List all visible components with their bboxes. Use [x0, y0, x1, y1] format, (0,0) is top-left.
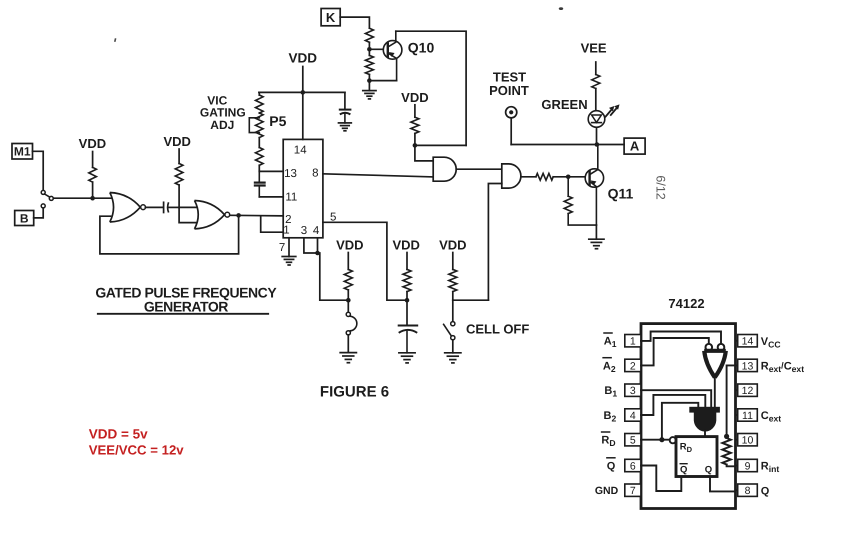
svg-text:VEE/VCC = 12v: VEE/VCC = 12v: [89, 443, 185, 458]
wire CELL OFF riser to U5 input: [488, 184, 501, 301]
switch S2: [346, 312, 350, 316]
pin box 12: [736, 389, 738, 391]
svg-text:9: 9: [745, 461, 751, 473]
wire VDD b1 down: [347, 253, 349, 270]
wire switch common to NOR U1 input: [53, 197, 111, 199]
wire C3 to IC pin 11: [259, 196, 283, 198]
wire B to switch: [34, 208, 44, 218]
box K input terminal: [321, 9, 340, 26]
resistor R8 base: [536, 173, 553, 180]
wire R11 to node: [347, 290, 349, 300]
wire VDD rail horizontal: [259, 91, 345, 93]
pin box 9: [736, 465, 738, 467]
switch S1 arm: [45, 194, 50, 197]
wire M1 to switch: [33, 151, 44, 190]
switch S1 B contact: [41, 204, 45, 208]
box B input terminal: [15, 211, 34, 226]
node resistor top: [724, 434, 729, 439]
wire R4 to pin13 node: [258, 165, 260, 171]
svg-text:M1: M1: [14, 145, 31, 159]
wire K to resistor: [340, 17, 369, 28]
svg-text:VDD = 5v: VDD = 5v: [89, 427, 148, 442]
pin box 2: [625, 359, 641, 371]
svg-text:1: 1: [283, 224, 289, 236]
capacitor C1 coupling: [163, 202, 165, 212]
wire S3 to ground: [452, 340, 454, 353]
bubble NAND input right: [718, 344, 725, 351]
pin box 13: [736, 364, 738, 366]
svg-text:VDD: VDD: [401, 90, 428, 105]
wire node to NOR U2 top input: [179, 206, 196, 208]
resistor R4 lower chain: [256, 148, 264, 166]
ground branch 1: [340, 352, 356, 354]
pin box 6: [625, 459, 641, 471]
svg-text:Q: Q: [705, 465, 712, 476]
wire node step to NOR U2 bottom input: [179, 207, 196, 222]
resistor R9 bleeder: [567, 177, 569, 196]
wire U2 output to IC pin 2: [230, 214, 283, 217]
AND gate U4: [433, 157, 456, 181]
svg-text:13: 13: [284, 168, 297, 180]
wire R2 to node: [178, 185, 180, 207]
wire FF Q to pin8: [710, 477, 736, 492]
wire rail to C2: [344, 92, 346, 108]
svg-text:CELL OFF: CELL OFF: [466, 322, 529, 337]
wire U1 output: [145, 206, 162, 208]
svg-text:VDD: VDD: [163, 134, 190, 149]
svg-text:1: 1: [630, 336, 636, 348]
wire R8 to node: [553, 176, 568, 178]
svg-text:3: 3: [630, 385, 636, 397]
wire Q10 collector top run: [396, 31, 466, 145]
svg-text:8: 8: [745, 485, 751, 497]
wire C1 to node: [168, 206, 179, 208]
node pin5 junction: [659, 437, 664, 442]
AND gate U5: [502, 164, 521, 188]
wire S2 to ground: [347, 335, 349, 353]
resistor R7: [411, 117, 419, 133]
resistor P5 element: [256, 113, 264, 138]
NOR gate internal pointing down: [704, 351, 726, 378]
potentiometer P5 wiper loop: [249, 118, 259, 133]
node branch 1 junction: [346, 298, 351, 303]
wire pin2 to left bubble: [641, 338, 709, 365]
svg-text:ADJ: ADJ: [210, 118, 234, 132]
wire U4 output to U5: [456, 168, 502, 170]
node R7/Q10 junction: [413, 143, 418, 148]
IC U3 timer box: [283, 139, 323, 237]
ground IC pin 7: [282, 256, 296, 258]
wire pin4 to AND: [641, 395, 705, 415]
capacitor C4: [399, 325, 418, 327]
svg-text:6: 6: [630, 461, 636, 473]
ground under Q10: [363, 90, 376, 92]
wire R5 to base node: [368, 42, 370, 49]
ground branch 3: [445, 352, 461, 354]
pin box 3: [625, 384, 641, 396]
capacitor C3: [258, 171, 260, 181]
wire node to CELL OFF riser: [453, 299, 489, 301]
node LED junction: [595, 142, 600, 147]
bubble NAND input left: [706, 344, 713, 351]
svg-text:Q: Q: [680, 465, 687, 476]
node switch/VDD junction: [90, 196, 95, 201]
wire pin5 branch to AND: [662, 403, 698, 440]
wire VEE down: [595, 62, 597, 75]
wire VDD b2 down: [406, 253, 408, 270]
svg-text:FIGURE 6: FIGURE 6: [320, 384, 389, 401]
wire pin13 to resistor: [727, 365, 736, 436]
svg-text:B: B: [20, 211, 29, 225]
svg-text:POINT: POINT: [489, 83, 529, 98]
resistor R1 VDD pullup: [89, 167, 97, 182]
wire pin5 run: [641, 439, 670, 441]
wire R10 to LED: [595, 89, 597, 111]
wire LED to output line: [596, 127, 598, 144]
ground under C2: [339, 122, 352, 124]
wire node to AND U4 top input: [415, 145, 433, 161]
flip-flop box: [676, 437, 717, 477]
wire resistor to pin9: [727, 465, 736, 467]
wire node to Q11 base: [568, 176, 585, 178]
transistor Q11: [585, 169, 603, 187]
svg-text:3: 3: [301, 225, 307, 237]
wire pin3/4 to branch 1: [320, 253, 349, 300]
IC 74122 outline box: [641, 324, 736, 509]
wire NOR output down: [714, 377, 716, 406]
pin box 4: [625, 409, 641, 421]
svg-text:Q: Q: [607, 460, 616, 472]
node VDD rail junction: [301, 90, 306, 95]
svg-text:11: 11: [742, 410, 753, 422]
svg-text:Q: Q: [761, 485, 770, 497]
wire feedback loop: [100, 215, 239, 254]
wire VDD4 down: [414, 105, 416, 117]
svg-text:VEE: VEE: [581, 40, 607, 55]
svg-text:VDD: VDD: [439, 238, 466, 253]
wire node to ground: [368, 81, 370, 91]
svg-text:P5: P5: [269, 113, 286, 129]
resistor R6 Q10 lower: [365, 55, 373, 74]
resistor R2 VDD pullup: [175, 164, 183, 186]
wire test point down: [510, 118, 512, 145]
svg-text:GND: GND: [595, 485, 619, 497]
wire node to switch S2: [347, 300, 349, 312]
wire R12 to node: [406, 292, 408, 301]
svg-text:14: 14: [294, 144, 307, 156]
wire node to switch S3: [452, 300, 454, 321]
svg-text:VDD: VDD: [289, 51, 318, 66]
wire R13 to node: [452, 292, 454, 301]
scan speck top right: [559, 7, 563, 10]
svg-text:2: 2: [630, 360, 636, 372]
LED D1 GREEN: [588, 111, 605, 128]
wire chain to IC pin 13: [259, 170, 283, 172]
node Q11 base junction: [566, 175, 571, 180]
svg-text:GREEN: GREEN: [541, 97, 587, 112]
svg-text:K: K: [326, 10, 336, 25]
resistor R12: [403, 269, 411, 291]
wire pin1 to right bubble: [641, 332, 721, 344]
wire pot to R4: [258, 138, 260, 148]
switch S1 common contact: [49, 196, 53, 200]
wire IC pin 5 to branch 2: [323, 222, 407, 300]
pin box 10: [736, 439, 738, 441]
pin box 8: [736, 489, 738, 491]
node branch 2 junction: [405, 298, 410, 303]
LED light arrows: [606, 109, 612, 116]
scan speck top left: [114, 38, 116, 42]
svg-text:A: A: [630, 139, 640, 154]
wire pin3 to AND: [641, 390, 711, 407]
svg-text:4: 4: [630, 410, 636, 422]
svg-text:11: 11: [285, 191, 297, 203]
wire AND output to FF: [704, 430, 706, 437]
svg-text:6/12: 6/12: [654, 175, 668, 199]
switch S3 CELL OFF: [451, 322, 455, 326]
pin box 11: [736, 414, 738, 416]
bubble FF RD input: [670, 437, 676, 443]
wire VDD b3 down: [452, 253, 454, 270]
title underline: [98, 313, 268, 315]
wire output line to A: [511, 144, 624, 146]
resistor R13: [449, 269, 457, 291]
svg-text:12: 12: [742, 385, 754, 397]
wire emitter to node: [369, 80, 396, 82]
svg-text:4: 4: [313, 225, 320, 237]
wire VDD top to pin 14: [302, 67, 304, 140]
wire VDD1 down: [92, 152, 94, 168]
wire node to C4: [406, 300, 408, 324]
box M1 input terminal: [12, 144, 33, 160]
pin box 7: [625, 484, 641, 496]
svg-text:10: 10: [742, 435, 754, 447]
svg-text:8: 8: [312, 168, 318, 180]
svg-text:13: 13: [742, 360, 754, 372]
wire IC pin 8 to AND U4: [323, 174, 433, 177]
wire R6 stubs: [368, 49, 370, 55]
wire VDD2 down: [178, 149, 180, 164]
resistor R10 LED: [592, 75, 600, 89]
ground branch 2: [399, 352, 415, 354]
wire R7 to node: [414, 133, 416, 145]
svg-text:74122: 74122: [668, 296, 704, 311]
wire IC pin 7 down: [288, 238, 290, 257]
transistor Q10: [383, 41, 402, 60]
node Q10 base junction: [367, 47, 372, 52]
wire pin6 to FF Qbar: [641, 466, 681, 492]
NOR gate U1: [110, 193, 141, 223]
box A output terminal: [624, 138, 645, 154]
NOR gate U2: [195, 201, 225, 229]
resistor R internal: [722, 438, 730, 465]
test point terminal: [506, 107, 517, 118]
svg-text:VDD: VDD: [392, 238, 419, 253]
svg-text:5: 5: [630, 435, 636, 447]
svg-text:7: 7: [630, 485, 636, 497]
svg-text:7: 7: [279, 242, 285, 254]
svg-text:GENERATOR: GENERATOR: [144, 298, 228, 314]
ground under Q11: [589, 238, 604, 240]
resistor R5: [365, 28, 373, 42]
svg-text:14: 14: [742, 336, 754, 348]
svg-text:VDD: VDD: [336, 238, 363, 253]
wire IC pin1 tie to pin2: [261, 216, 284, 232]
wire U5 output: [521, 176, 536, 178]
resistor R11: [344, 269, 352, 290]
node U2 output junction: [236, 213, 241, 218]
pin box 5: [625, 434, 641, 446]
node Q10 emitter junction: [367, 78, 372, 83]
svg-text:Q11: Q11: [608, 186, 634, 202]
wire Q11 emitter to ground: [595, 225, 597, 239]
svg-text:Q10: Q10: [408, 40, 435, 56]
wire IC pins 3 and 4 down: [304, 238, 318, 253]
wire base node to Q10: [369, 48, 384, 50]
wire R1 to node: [92, 182, 94, 198]
pin box 14: [736, 340, 738, 342]
node pin 3/4 junction: [315, 251, 320, 256]
svg-text:VDD: VDD: [79, 136, 106, 151]
AND gate internal: [689, 407, 720, 413]
wire node to Q10 riser: [415, 144, 466, 146]
switch S1 pole M1 contact: [41, 190, 45, 194]
resistor R3 upper pot chain: [258, 92, 260, 95]
pin box 1: [625, 335, 641, 347]
capacitor C2 decoupling: [340, 109, 351, 111]
